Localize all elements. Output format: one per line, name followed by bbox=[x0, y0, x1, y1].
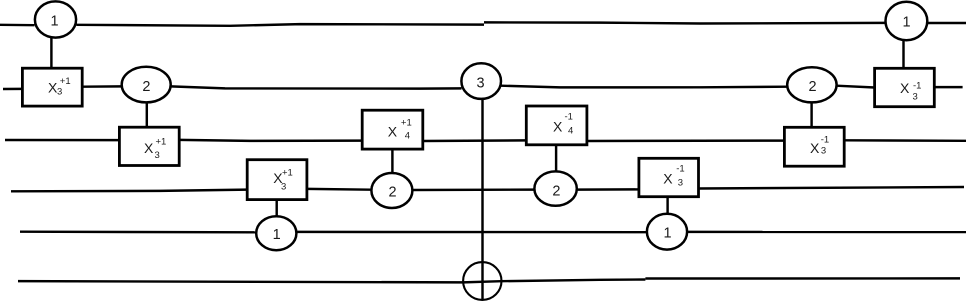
connector box D to circle2 q4 left bbox=[391, 149, 393, 173]
svg-text:-1: -1 bbox=[676, 164, 684, 175]
gate box X4+1 on q3 (raised) bbox=[362, 110, 423, 149]
control circle 3 on q2 center bbox=[461, 63, 501, 99]
svg-text:3: 3 bbox=[155, 150, 160, 161]
gate box X3-1 on q2 right bbox=[875, 68, 935, 106]
wire q5 segment left bbox=[20, 230, 256, 233]
svg-text:X: X bbox=[553, 119, 563, 135]
wire q5 segment right bbox=[687, 231, 966, 234]
control circle 1 on q1 right bbox=[886, 2, 928, 40]
svg-text:-1: -1 bbox=[913, 80, 921, 91]
gate box X3+1 on q3 bbox=[119, 127, 179, 165]
svg-text:2: 2 bbox=[142, 79, 150, 95]
connector box E to circle2 q4 right bbox=[555, 145, 557, 172]
wire q1 segment right bbox=[927, 22, 966, 24]
svg-text:+1: +1 bbox=[60, 76, 71, 87]
svg-text:2: 2 bbox=[552, 183, 560, 199]
svg-text:3: 3 bbox=[477, 75, 485, 91]
wire q4 segment boxC-to-circle bbox=[307, 188, 372, 191]
svg-text:4: 4 bbox=[568, 126, 573, 137]
svg-text:-1: -1 bbox=[565, 112, 573, 123]
wire q5 segment mid bbox=[296, 231, 647, 234]
svg-text:+1: +1 bbox=[401, 118, 412, 129]
svg-text:X: X bbox=[388, 124, 398, 140]
connector circle1L to box A bbox=[50, 37, 52, 68]
wire q2 segment left bbox=[3, 88, 23, 91]
wire q1 segment mid-right bbox=[484, 22, 886, 23]
control circle 1 on q5 left bbox=[256, 216, 296, 250]
svg-text:2: 2 bbox=[808, 79, 816, 95]
svg-text:X: X bbox=[144, 140, 154, 156]
wire q2 segment box-to-circle bbox=[82, 85, 122, 88]
connector circle2R to box G bbox=[810, 102, 812, 127]
svg-text:2: 2 bbox=[389, 185, 397, 201]
wire q3 segment boxB-to-boxD bbox=[179, 140, 362, 141]
svg-text:3: 3 bbox=[57, 87, 62, 98]
gate box X4-1 on q3 (raised) bbox=[526, 106, 587, 145]
wire q6 right bbox=[645, 277, 960, 280]
svg-text:+1: +1 bbox=[156, 137, 167, 148]
svg-text:-1: -1 bbox=[821, 135, 829, 146]
connector box C to circle1 q5 left bbox=[275, 200, 277, 217]
svg-text:1: 1 bbox=[273, 227, 281, 243]
wire q4 segment left bbox=[11, 190, 247, 192]
svg-text:1: 1 bbox=[663, 226, 671, 242]
svg-text:3: 3 bbox=[678, 178, 683, 189]
svg-text:X: X bbox=[900, 80, 910, 96]
svg-text:3: 3 bbox=[821, 146, 826, 157]
wire q2 segment right bbox=[934, 86, 962, 88]
control circle 1 on q1 left bbox=[35, 1, 76, 37]
svg-text:3: 3 bbox=[281, 182, 286, 193]
control circle 2 on q2 right bbox=[787, 67, 836, 102]
connector box F to circle1 q5 right bbox=[666, 197, 668, 214]
control circle 1 on q5 right bbox=[647, 214, 687, 250]
wire q2 segment circle2-to-circle3 bbox=[171, 86, 462, 88]
svg-text:4: 4 bbox=[405, 131, 410, 142]
connector circle1R to box H bbox=[902, 40, 904, 69]
gate box X3-1 on q4 bbox=[639, 158, 699, 196]
wire q1 segment left bbox=[0, 24, 35, 27]
wire q4 segment circle-to-boxF bbox=[577, 188, 639, 191]
wire q4 segment right bbox=[699, 187, 965, 189]
wire q3 segment right bbox=[844, 139, 966, 142]
CNOT target on q6 bbox=[463, 262, 501, 300]
svg-text:X: X bbox=[810, 140, 820, 156]
control circle 2 on q4 right bbox=[534, 171, 576, 205]
central control line from circle 3 to target bbox=[481, 99, 483, 300]
wire q6 left+mid bbox=[18, 280, 645, 283]
wire q4 segment circle-to-circle bbox=[412, 188, 534, 191]
control circle 2 on q2 left bbox=[122, 67, 171, 103]
svg-text:+1: +1 bbox=[282, 168, 293, 179]
gate box X3+1 on q2 bbox=[22, 68, 82, 106]
wire q1 segment mid bbox=[76, 24, 484, 26]
svg-text:1: 1 bbox=[903, 15, 911, 31]
wire q3 segment boxE-to-boxG bbox=[587, 139, 784, 142]
wire q3 segment left bbox=[5, 139, 119, 142]
control circle 2 on q4 left bbox=[371, 173, 412, 208]
svg-text:X: X bbox=[663, 171, 673, 187]
gate box X3+1 on q4 bbox=[247, 160, 307, 200]
wire q2 segment circle3-to-circle2R bbox=[501, 86, 788, 88]
wire q2 segment circle2R-to-box bbox=[836, 86, 874, 88]
svg-text:3: 3 bbox=[913, 92, 918, 103]
gate box X3-1 on q3 right bbox=[784, 127, 844, 166]
wire q3 segment boxD-to-boxE bbox=[423, 139, 526, 142]
connector circle2L to box B bbox=[146, 102, 148, 127]
svg-text:1: 1 bbox=[50, 14, 58, 30]
